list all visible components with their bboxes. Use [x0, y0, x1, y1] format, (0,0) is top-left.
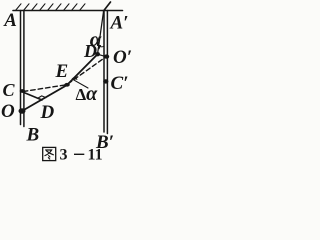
svg-text:O′: O′ — [113, 47, 132, 68]
svg-text:B: B — [26, 125, 40, 146]
svg-text:E: E — [55, 61, 69, 82]
svg-text:A′: A′ — [110, 13, 129, 34]
svg-text:Δα: Δα — [76, 83, 99, 105]
svg-text:11: 11 — [88, 147, 103, 164]
svg-text:C: C — [3, 80, 16, 100]
svg-text:A: A — [3, 10, 17, 31]
svg-text:D: D — [40, 102, 55, 123]
svg-text:C′: C′ — [111, 73, 129, 94]
svg-text:O: O — [1, 101, 15, 122]
svg-text:3: 3 — [60, 147, 68, 164]
svg-text:α: α — [90, 27, 102, 51]
